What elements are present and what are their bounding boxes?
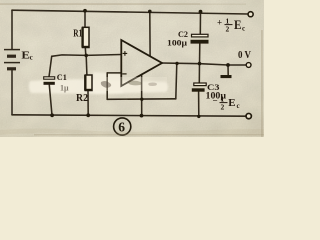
wire R1 top xyxy=(84,10,86,27)
svg-text:R1: R1 xyxy=(73,29,82,40)
node 0V stub xyxy=(226,63,230,67)
svg-text:c: c xyxy=(242,25,245,33)
paper background xyxy=(0,0,264,137)
white correction band xyxy=(29,79,168,94)
terminal 0V xyxy=(246,63,251,68)
svg-text:E: E xyxy=(228,98,236,109)
svg-text:c: c xyxy=(30,53,33,61)
terminal -1/2Ec xyxy=(246,113,251,118)
svg-text:R2: R2 xyxy=(76,92,88,104)
node top rail R1 xyxy=(83,9,87,13)
white fade over feedback wires xyxy=(95,77,167,91)
wire node A to R2 xyxy=(85,55,88,75)
svg-text:E: E xyxy=(234,18,242,32)
node bottom rail V- xyxy=(140,114,144,118)
wire C1 top lead xyxy=(49,56,52,77)
wire top rail xyxy=(12,10,248,14)
wire feedback down leg xyxy=(176,63,177,98)
svg-text:2: 2 xyxy=(221,103,225,112)
node bottom rail C3 xyxy=(197,115,200,118)
wire 0V ground stub xyxy=(227,65,229,75)
node feedback V- crossing xyxy=(140,98,143,101)
wire feedback bottom xyxy=(107,98,176,101)
wire R1 bottom to node A xyxy=(84,48,87,56)
svg-text:100μ: 100μ xyxy=(167,37,187,47)
resistor R1 xyxy=(83,27,90,47)
battery E_c xyxy=(4,50,20,69)
svg-text:C1: C1 xyxy=(57,72,67,82)
op-amp U1 xyxy=(121,40,162,86)
wire C1 bottom lead xyxy=(49,85,52,115)
label -1/2 Ec xyxy=(213,95,240,112)
label +1/2 Ec xyxy=(217,17,245,34)
wire C3 bottom lead xyxy=(198,92,200,117)
wire V+ supply drop xyxy=(149,11,151,56)
node output feedback xyxy=(175,62,178,65)
wire V- supply drop xyxy=(141,74,143,115)
capacitor C2 xyxy=(191,34,209,43)
node bottom rail R2 xyxy=(86,113,90,117)
capacitor C1 xyxy=(44,77,55,85)
wire bottom rail xyxy=(12,115,246,116)
wire C2 top lead xyxy=(199,11,201,34)
wire left vertical upper xyxy=(11,10,13,49)
svg-text:c: c xyxy=(237,102,240,110)
wire C2 bottom lead / C3 top lead xyxy=(198,44,201,83)
wire feedback up leg xyxy=(106,73,108,99)
wire left vertical lower xyxy=(11,70,13,114)
node A junction xyxy=(84,54,88,58)
ground bar at 0V xyxy=(221,75,232,78)
figure number 6 xyxy=(114,118,131,135)
frame scan edges xyxy=(0,3,200,4)
wire R2 bottom xyxy=(87,91,89,116)
node top rail V+ xyxy=(148,10,152,14)
node bottom rail C1 xyxy=(50,113,54,117)
node top rail C2 xyxy=(199,10,203,14)
node 0V C3 xyxy=(198,62,202,66)
wire inverting input xyxy=(107,72,121,74)
svg-text:1μ: 1μ xyxy=(60,84,69,93)
svg-text:0 V: 0 V xyxy=(238,50,251,61)
wire output xyxy=(162,63,246,65)
svg-text:+: + xyxy=(217,18,222,28)
ink smudges under correction band xyxy=(101,81,157,88)
resistor R2 xyxy=(85,75,92,91)
svg-text:−: − xyxy=(213,96,218,106)
capacitor C3 xyxy=(192,83,206,92)
terminal +1/2Ec xyxy=(248,12,253,17)
svg-text:2: 2 xyxy=(226,25,230,34)
wire node A horizontal to + input xyxy=(52,55,122,57)
